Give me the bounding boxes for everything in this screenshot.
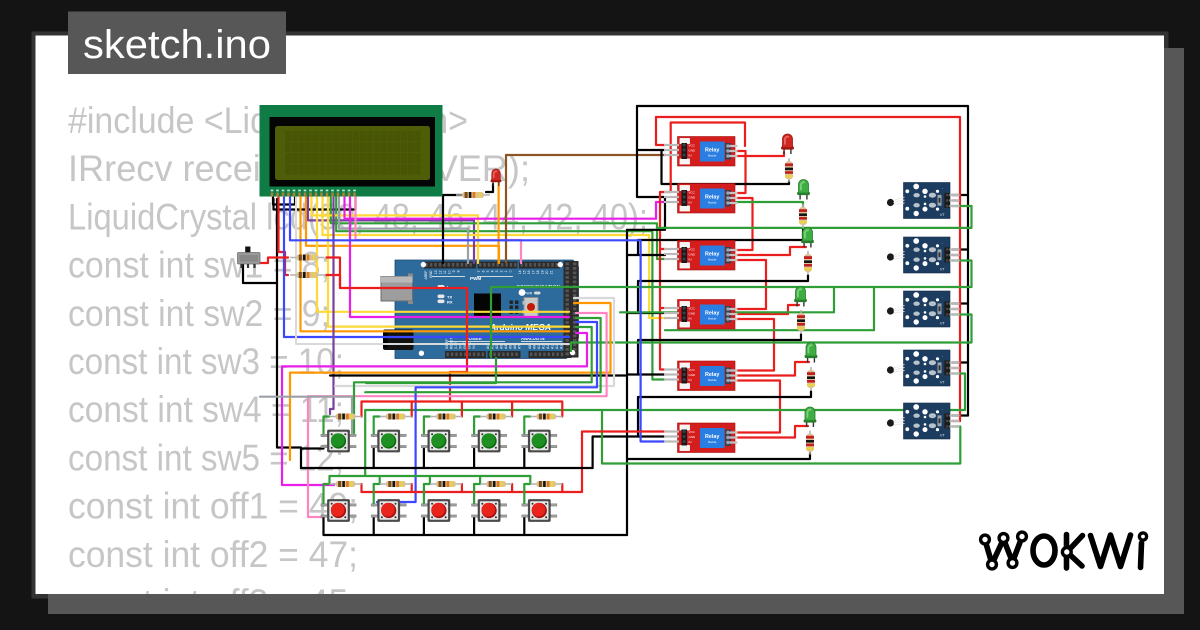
svg-text:IN: IN [689, 378, 692, 382]
svg-text:const int off2 = 47;: const int off2 = 47; [68, 533, 358, 575]
wire GND bus stub M3 [952, 302, 968, 304]
wire sw4 gnd riser [473, 449, 475, 469]
svg-text:-: - [942, 295, 943, 299]
wire relay K6 to LED [736, 426, 808, 438]
svg-text:const int sw2 = 9;: const int sw2 = 9; [68, 292, 330, 334]
wire GND top bus [637, 106, 968, 416]
relay module K6 [664, 423, 738, 453]
svg-text:20: 20 [545, 270, 549, 274]
svg-text:const int sw4 = 11;: const int sw4 = 11; [68, 388, 344, 430]
DS18B20 temperature sensor module U3 [887, 291, 960, 327]
pushbutton SW4 [472, 430, 507, 453]
wire sw4 resistor green [474, 417, 480, 437]
wire red chain riser 4 [511, 402, 513, 417]
wire off3 bus riser [429, 476, 431, 484]
svg-text:Relay: Relay [705, 148, 719, 154]
wire resistor chain red [327, 258, 341, 289]
wire red chain off riser 4 [511, 484, 513, 492]
svg-text:AREF: AREF [424, 271, 428, 280]
svg-text:Relay: Relay [705, 252, 719, 258]
svg-text:const int off1 = 49;: const int off1 = 49; [68, 485, 358, 527]
wire GND stub K2 [627, 197, 665, 230]
wire GND top bus left [637, 106, 664, 197]
wire red chain riser 3 [461, 402, 463, 417]
wire R6v gnd [627, 453, 810, 459]
wire header loop green 1 [365, 318, 600, 392]
svg-text:VCC: VCC [689, 247, 696, 251]
wire sw1 gnd wrap [301, 447, 324, 449]
DS18B20 temperature sensor module U4 [887, 350, 960, 386]
slide switch SW0 [238, 247, 261, 269]
wire green link 1 [665, 287, 874, 330]
svg-text:VCC: VCC [689, 368, 696, 372]
svg-text:12: 12 [439, 270, 443, 274]
pushbutton SW3 [421, 430, 456, 453]
relay module K5 [664, 361, 738, 391]
wire sw2 resistor green [374, 417, 380, 437]
wire LCD violet [308, 197, 474, 263]
LED D6 [804, 407, 817, 427]
svg-text:Module: Module [708, 378, 717, 382]
wire off5 resistor green [524, 484, 530, 506]
svg-text:A6: A6 [513, 345, 517, 349]
wire relay K4-K5 chain [736, 319, 774, 371]
LED D3 [801, 228, 814, 248]
resistor R_sw2 [380, 414, 412, 420]
wire off3 resistor green [424, 484, 430, 506]
wire 5V rail stub K4 [660, 307, 665, 309]
svg-text:GND: GND [689, 252, 697, 256]
relay module K2 [664, 184, 738, 214]
wire off2 gnd riser [373, 517, 375, 535]
wire relay K1-K2 chain [736, 151, 746, 193]
wire switch GND [243, 264, 277, 283]
wire GND rail [626, 230, 628, 535]
resistor R_off2 [380, 481, 412, 487]
wire relay K3 to LED [736, 247, 806, 255]
svg-text:A3: A3 [500, 345, 504, 349]
svg-text:IN: IN [689, 257, 692, 261]
svg-text:Relay: Relay [705, 195, 719, 201]
wire GND bus stub M4 [952, 361, 968, 363]
relay module K3 [664, 241, 738, 271]
svg-text:3: 3 [495, 270, 499, 272]
svg-text:GND: GND [689, 435, 697, 439]
wire LCD GND jumper 2 [274, 197, 356, 210]
LED D5 [805, 343, 818, 363]
wire off1 bus riser [328, 476, 330, 484]
svg-text:-: - [942, 241, 943, 245]
svg-text:A2: A2 [495, 345, 499, 349]
LED D4 [794, 287, 807, 307]
svg-text:0: 0 [509, 270, 513, 272]
wire red chain off row [362, 432, 666, 493]
wire switch to resistor [256, 258, 289, 264]
wire LCD GND down [277, 199, 301, 468]
svg-text:2: 2 [500, 270, 504, 272]
wire LED D1 orange [498, 183, 500, 263]
DS18B20 temperature sensor module U1 [887, 183, 960, 219]
wire red chain off riser 3 [461, 484, 463, 492]
svg-text:A4: A4 [504, 345, 508, 349]
svg-text:19: 19 [541, 270, 545, 274]
relay module K4 [664, 300, 738, 330]
svg-text:IN: IN [689, 316, 692, 320]
wire LCD green to relay K3 [331, 197, 665, 259]
wire 5V stub M4 [952, 367, 960, 369]
wire 5V relay rail [660, 192, 665, 370]
wire M1 signal [657, 206, 972, 228]
resistor R_sw4 [480, 414, 512, 420]
wire off2 resistor green [374, 484, 380, 506]
wire sw3 resistor green [424, 417, 430, 437]
resistor R_a [290, 255, 324, 261]
Arduino MEGA U1 [381, 260, 579, 359]
wire header loop green 2 [354, 327, 592, 433]
resistor R1s [456, 192, 490, 198]
svg-text:Relay: Relay [705, 434, 719, 440]
wire sw5 gnd riser [523, 449, 525, 469]
pushbutton OFF3 [421, 499, 456, 522]
svg-text:17: 17 [532, 270, 536, 274]
wire sw5 resistor green [524, 417, 530, 437]
svg-text:const int sw1 = 8;: const int sw1 = 8; [68, 244, 330, 286]
svg-text:RX: RX [447, 299, 453, 304]
wire GND bus stub M2 [952, 248, 968, 250]
wire relay K2 to LED green [736, 202, 803, 206]
svg-text:5: 5 [486, 270, 490, 272]
wire 5V top bus [656, 117, 960, 421]
wire gray button [260, 397, 352, 433]
wire red chain off riser 5 [561, 484, 563, 492]
wire 5V rail stub K3 [660, 248, 665, 250]
svg-text:A9: A9 [533, 345, 537, 349]
wire GND bus stub M5 [952, 414, 968, 416]
svg-text:21: 21 [550, 270, 554, 274]
wire red chain off riser 2 [411, 484, 413, 492]
wire GND stub K5 [627, 373, 665, 375]
resistor R2v [799, 204, 807, 228]
wire M2 signal [491, 261, 972, 358]
wire resistor2 out red [327, 275, 341, 288]
svg-text:IN: IN [689, 153, 692, 157]
pushbutton OFF1 [321, 499, 356, 522]
wire red chain sw row [362, 402, 563, 417]
wire LCD D4 orange [306, 197, 499, 263]
wire GND bus stub M1 [952, 194, 968, 196]
resistor R4v [797, 310, 805, 334]
wire LCD E orange [301, 197, 570, 331]
svg-text:Relay: Relay [705, 372, 719, 378]
sketch.ino tab [68, 12, 286, 75]
wire GND stub K4 [627, 312, 665, 314]
resistor R_sw1 [330, 414, 362, 420]
wire R5v gnd [638, 391, 811, 437]
wire M4 signal [365, 374, 965, 477]
resistor R_sw5 [530, 414, 562, 420]
LCD2004 display module [260, 105, 443, 197]
wire GND stub K3 [627, 254, 665, 256]
svg-text:A0: A0 [486, 345, 490, 349]
wire 5V stub M2 [952, 254, 960, 256]
wire off4 gnd riser [473, 517, 475, 535]
svg-text:13: 13 [434, 270, 438, 274]
wire M3 signal [571, 315, 972, 352]
svg-text:const int sw3 = 10;: const int sw3 = 10; [68, 340, 344, 382]
wire header loop magenta [282, 333, 587, 485]
wire sw gnd bus [301, 467, 593, 469]
wire relay K5 to LED [736, 362, 809, 376]
pushbutton OFF2 [371, 499, 406, 522]
wire relay K1 to LED [736, 152, 784, 156]
svg-text:Relay: Relay [705, 311, 719, 317]
wire sw2 gnd riser [373, 449, 375, 469]
wire 5V stub M3 [952, 308, 960, 310]
wire red chain riser 2 [411, 402, 413, 417]
wire header loop blue [377, 322, 597, 502]
svg-text:VCC: VCC [689, 190, 696, 194]
wire R4v gnd [638, 334, 801, 375]
LED D1s [491, 169, 502, 186]
wire brown to relay K1 [506, 155, 665, 262]
DS18B20 temperature sensor module U2 [887, 237, 960, 273]
pushbutton OFF5 [522, 499, 557, 522]
pushbutton SW5 [522, 430, 557, 453]
wire LCD pink [356, 197, 522, 263]
DS18B20 temperature sensor module U5 [887, 403, 960, 439]
wire R3v gnd [638, 275, 808, 313]
svg-text:18: 18 [536, 270, 540, 274]
wire LCD violet to buttons [330, 197, 334, 414]
wire LCD VSS jumper [273, 197, 295, 205]
svg-text:3.3V: 3.3V [454, 341, 458, 349]
wire sw3 gnd riser [423, 449, 425, 469]
wire off1 resistor green [324, 484, 330, 506]
relay module K1 [664, 137, 738, 167]
wire 5V stub M1 [952, 199, 960, 201]
pushbutton OFF4 [472, 499, 507, 522]
svg-text:Module: Module [708, 316, 717, 320]
svg-text:4: 4 [491, 270, 495, 272]
svg-text:-: - [942, 354, 943, 358]
svg-text:16: 16 [527, 270, 531, 274]
svg-text:-: - [942, 407, 943, 411]
wire green link 2 [620, 288, 834, 312]
wire LCD magenta bus [350, 197, 569, 317]
resistor R3v [804, 251, 812, 275]
svg-text:Module: Module [708, 257, 717, 261]
svg-text:VCC: VCC [689, 430, 696, 434]
wire relay K1 LED gnd [662, 152, 790, 185]
wire off4 resistor green [474, 484, 480, 506]
svg-text:IN: IN [689, 440, 692, 444]
wire resistor R1s to GND header [443, 195, 462, 263]
wire LCD V0 blue [284, 197, 569, 337]
wire relay K5-K6 chain [736, 381, 780, 433]
svg-text:6: 6 [482, 270, 486, 272]
svg-text:GND: GND [689, 148, 697, 152]
svg-text:IN: IN [689, 200, 692, 204]
wire off gnd bus [324, 517, 628, 535]
svg-text:14: 14 [518, 270, 522, 274]
svg-text:GND: GND [689, 195, 697, 199]
wire A-pin green stub [366, 358, 496, 383]
wire relay K4 to LED [736, 305, 799, 314]
svg-text:8: 8 [457, 270, 461, 272]
svg-text:1: 1 [504, 270, 508, 272]
resistor R6v [806, 431, 814, 455]
svg-text:9: 9 [452, 270, 456, 272]
svg-text:-: - [942, 187, 943, 191]
svg-text:A7: A7 [518, 345, 522, 349]
wire GND stub K6 [593, 437, 665, 469]
wire M5 signal [602, 410, 960, 464]
wire off5 gnd riser [523, 517, 525, 535]
svg-text:VCC: VCC [689, 306, 696, 310]
wire LCD yellow loop [312, 197, 479, 263]
wire LCD magenta to relay K2 [345, 197, 666, 219]
wire header loop pink [308, 313, 607, 517]
svg-text:A5: A5 [509, 345, 513, 349]
svg-text:GND: GND [689, 311, 697, 315]
svg-text:VCC: VCC [689, 143, 696, 147]
resistor R_off4 [480, 481, 512, 487]
wire LCD yellow to relay K4 [323, 197, 666, 318]
wire LCD blue to relay K6 [290, 197, 665, 442]
wire LCD green to relay K5 [336, 197, 665, 380]
svg-text:Module: Module [708, 200, 717, 204]
wire off3 gnd riser [423, 517, 425, 535]
wire LCD yellow bus 2 [328, 197, 569, 327]
svg-text:11: 11 [443, 270, 447, 274]
svg-text:GND: GND [429, 270, 433, 278]
wire LCD yellow bus 1 [317, 197, 569, 312]
svg-text:A8: A8 [528, 345, 532, 349]
wire R2v gnd [638, 228, 803, 254]
resistor R_off3 [430, 481, 462, 487]
wire off5 bus riser [529, 476, 531, 484]
resistor R_off1 [330, 481, 362, 487]
svg-text:Module: Module [708, 440, 717, 444]
resistor R_sw3 [430, 414, 462, 420]
wire off2 bus riser [379, 476, 381, 484]
svg-text:Module: Module [708, 153, 717, 157]
svg-text:GND: GND [689, 373, 697, 377]
wire green bus off row [330, 475, 531, 477]
wire relay K1 loop to K2 [664, 123, 745, 193]
WOKWI logo [985, 535, 1142, 569]
pushbutton SW2 [371, 430, 406, 453]
wire GND tee relay K1 [637, 149, 665, 151]
svg-text:7: 7 [477, 270, 481, 272]
wire 5V stub M5 [952, 420, 960, 422]
wire header loop white [335, 298, 614, 386]
pushbutton SW1 [321, 430, 356, 453]
wire LED D1 black [486, 184, 493, 192]
wire LCD RS white [296, 197, 569, 344]
svg-text:15: 15 [523, 270, 527, 274]
wire LCD VDD red [279, 197, 289, 275]
wire 5V relay K1 [656, 117, 665, 145]
svg-text:sketch.ino: sketch.ino [83, 23, 271, 67]
LED D1 [781, 134, 794, 154]
resistor R_off5 [530, 481, 562, 487]
wire relay K3-K4 chain [736, 260, 766, 309]
wire off4 bus riser [479, 476, 481, 484]
resistor R1v [785, 158, 793, 182]
svg-text:const int sw5 = 12;: const int sw5 = 12; [68, 436, 344, 478]
wire red 5V to board [340, 288, 467, 402]
LED D2 [797, 180, 810, 200]
wire GND mid run [330, 374, 627, 376]
wire relay K2-K3 chain [736, 198, 753, 250]
wire LCD gray [339, 197, 468, 263]
resistor R_b [290, 272, 324, 278]
svg-text:10: 10 [448, 270, 452, 274]
wire header loop orange [290, 303, 611, 460]
resistor R5v [807, 367, 815, 391]
wire sw1 resistor green [324, 417, 330, 437]
